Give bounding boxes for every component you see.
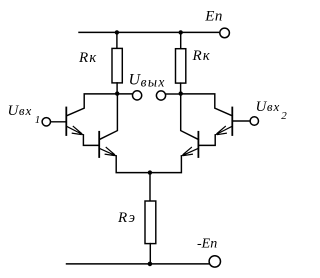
node junction top-left <box>115 30 119 34</box>
wire input2 to VT3 base <box>232 120 249 122</box>
transistor VT4 emitter with arrow <box>181 147 198 156</box>
wire input1 to VT1 base <box>51 121 66 123</box>
wire collector node to VT2 collector <box>99 94 117 140</box>
svg-text:Еп: Еп <box>204 9 222 25</box>
transistor VT2 emitter with arrow <box>99 147 116 156</box>
transistor VT4 base bar <box>197 132 199 157</box>
wire Rэ to bottom rail <box>149 244 151 264</box>
svg-text:Rэ: Rэ <box>117 210 135 226</box>
terminal Uвых right <box>156 91 165 100</box>
wire Rк2 to collector node <box>180 83 182 94</box>
node junction top-right <box>179 30 183 34</box>
terminal Еп <box>220 28 230 38</box>
terminal Uвх2 <box>250 117 258 125</box>
wire collector node to output terminal 1 <box>117 93 131 95</box>
wire collector node to VT3 collector <box>181 94 233 116</box>
transistor VT1 base bar <box>65 108 67 136</box>
wire collector node to VT1 collector <box>67 94 118 116</box>
svg-text:-Еп: -Еп <box>197 236 217 251</box>
transistor VT1 emitter with arrow <box>66 126 83 135</box>
wire VT1 emitter to VT2 base <box>83 135 99 146</box>
transistor VT3 emitter with arrow <box>215 126 232 135</box>
svg-text:Rк: Rк <box>192 48 210 64</box>
node collector-left junction <box>115 91 119 95</box>
wire VT2 emitter to common node <box>116 156 150 173</box>
wire rail to Rк2 <box>180 32 182 48</box>
node common emitter junction <box>148 170 152 174</box>
transistor VT2 base bar <box>98 132 100 157</box>
resistor Rк (right) <box>176 49 186 83</box>
resistor Rэ <box>145 201 156 244</box>
wire collector node to VT4 collector <box>181 94 199 140</box>
wire VT3 emitter to VT4 base <box>198 135 215 146</box>
wire top supply rail <box>79 31 219 33</box>
wire bottom supply rail <box>67 263 210 265</box>
terminal Uвх1 <box>42 118 50 126</box>
node collector-right junction <box>179 91 183 95</box>
wire rail to Rк1 <box>116 32 118 48</box>
transistor VT3 base bar <box>231 108 233 136</box>
svg-text:Uвых: Uвых <box>129 72 166 90</box>
wire output terminal 2 to right collector node <box>166 93 180 95</box>
wire Rк1 to collector node <box>116 83 118 94</box>
terminal -Еп <box>209 256 220 267</box>
node junction bottom <box>148 262 153 267</box>
wire common node to Rэ <box>149 173 151 201</box>
wire VT4 emitter to common node <box>150 156 182 173</box>
terminal Uвых left <box>133 91 142 100</box>
resistor Rк (left) <box>112 48 122 83</box>
svg-text:Rк: Rк <box>78 50 96 66</box>
